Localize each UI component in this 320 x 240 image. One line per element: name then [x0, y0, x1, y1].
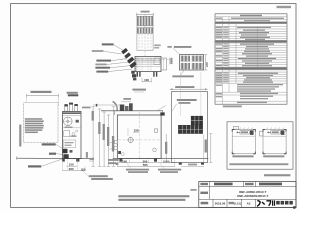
plan view elbow fitting blob 3 — [127, 57, 134, 64]
svg-text:270: 270 — [205, 62, 209, 67]
front view flexible hose curve — [113, 102, 118, 111]
plan view label bouchoumou — [102, 43, 114, 45]
plan view label haikito — [96, 60, 111, 62]
plan view label plate — [92, 50, 104, 52]
bath unit rotated dimension 254 — [205, 140, 207, 153]
install detail right square — [260, 130, 287, 154]
bath unit left foot — [179, 163, 182, 165]
plan view inner component rectangle — [154, 58, 160, 65]
side view parts list text block — [25, 118, 44, 133]
title block katashiki label — [200, 192, 208, 194]
plan view label leader lines left side — [104, 45, 133, 72]
side view floor line — [17, 157, 90, 159]
front view vertical centerline dashed — [138, 112, 140, 158]
svg-text:(1:15): (1:15) — [234, 202, 241, 206]
bath unit louver box B dark wide — [178, 125, 203, 134]
plan view horizontal centerline — [120, 58, 170, 60]
side view bottom dimension 130 — [67, 163, 78, 167]
title block hinmei label — [245, 183, 254, 185]
installation note paragraph line 1 — [118, 195, 189, 197]
bath unit operation cover label — [172, 99, 196, 111]
bath unit louver box A dark — [191, 116, 203, 125]
specification table cell text smudges — [216, 15, 284, 103]
chimney hatch band 2 — [137, 27, 153, 33]
title block sakusei label — [201, 202, 209, 205]
front view left side pipe stubs — [110, 140, 118, 150]
plan view grille slats left bottom — [181, 63, 189, 69]
front view bottom leader label gas left — [126, 164, 149, 174]
front view bottom leader label fixture right — [158, 164, 181, 174]
side view label A-setsuzokuguchi upper — [42, 143, 63, 149]
svg-text:565: 565 — [143, 163, 148, 167]
height dimension line 113.5 — [112, 107, 115, 167]
plan view left foot — [137, 72, 141, 77]
install detail left caption — [232, 155, 253, 157]
front view bottom dimension 565 — [117, 160, 175, 168]
plan view label tatekan fixing band — [95, 67, 110, 69]
plan view main body rectangle — [135, 57, 161, 72]
plan view elbow fitting blob 2 — [124, 52, 131, 58]
side view fan circle hub — [67, 120, 69, 122]
plan view vertical dashed projection lines — [139, 57, 151, 72]
side view bottom dashed extension lines — [63, 159, 86, 171]
chimney body outline — [137, 15, 153, 50]
side view roof label right — [82, 107, 91, 109]
svg-text:(100): (100) — [163, 159, 169, 163]
side view roof pipe stubs — [64, 103, 77, 112]
side note L-bracket line 1 — [82, 171, 113, 181]
plan view clearance note 1-1.5 — [132, 89, 146, 92]
plan view connector vertical dimension — [170, 58, 173, 65]
specification table horizontal rules — [215, 17, 287, 101]
units note (tan-i mm) top right — [277, 6, 292, 8]
side view feet — [62, 159, 79, 162]
plan view label setsuzokuguchi 50A — [96, 71, 108, 73]
plan view connector duct to grille — [161, 58, 167, 70]
plan view grille unit rectangle — [180, 55, 204, 71]
install detail left square — [232, 126, 255, 154]
plan view grille bottom label — [172, 70, 193, 77]
plan view 100 dimension under feet — [142, 78, 152, 83]
front view top-left burner assembly — [120, 98, 133, 111]
front view top-right dark valve component — [160, 112, 164, 115]
title block shounin label — [229, 202, 235, 204]
bath unit riser guide lines — [180, 72, 201, 116]
plan view left wall section hatch — [135, 58, 137, 72]
plan view to bath distance dimension 480+-50 — [170, 86, 208, 90]
front view top-right leader line — [158, 105, 166, 110]
plan view grille slats right top — [192, 56, 202, 62]
note below install box — [264, 174, 290, 176]
side view label A-setsuzokuguchi lower — [28, 159, 64, 168]
svg-text:100: 100 — [122, 159, 127, 163]
front view top extension line to height dims — [93, 104, 120, 107]
svg-text:RBF-A80SK-RR-R-T: RBF-A80SK-RR-R-T — [239, 190, 266, 194]
note fragment left of title block — [190, 189, 196, 191]
side view 45-110 dimension — [67, 92, 79, 97]
svg-text:2016.06: 2016.06 — [215, 202, 226, 206]
chimney bottom dimension with side note — [137, 45, 161, 51]
svg-text:A3: A3 — [247, 202, 251, 206]
side view rotated dimension 605 — [19, 125, 21, 147]
note below table — [223, 105, 242, 107]
side view top plate dark band — [63, 112, 81, 114]
side view mid components — [63, 120, 79, 148]
side view rotated note 4.5 — [86, 152, 88, 158]
front view small circle lower right — [153, 148, 157, 152]
side view upper inner panel lines — [63, 116, 81, 128]
plan view elbow fitting blob 1 — [121, 48, 128, 54]
title block outer and rules — [199, 182, 296, 208]
front view left foot — [119, 158, 122, 161]
plan view elbow fitting blob 4 — [129, 61, 137, 68]
svg-text:RBF-A80S2KN-RR-R-T: RBF-A80S2KN-RR-R-T — [237, 194, 268, 198]
install detail wall hatch left square — [235, 128, 253, 130]
chimney hatch band 1 — [137, 16, 153, 26]
specification table dark header band row 3 — [215, 22, 286, 24]
specification table dark band row gas type — [215, 67, 286, 69]
height dimension line 761 with extensions — [92, 107, 95, 167]
install detail wall hatch right square — [266, 128, 284, 130]
plan view grille slats left top — [181, 56, 189, 62]
side view fan circle — [64, 117, 73, 126]
title block meisho label — [200, 183, 208, 185]
front view pilot hole circle with crosshair — [127, 137, 134, 144]
chimney top dimension line — [137, 11, 153, 17]
chimney centerline — [144, 11, 146, 56]
side view dashed clearance box — [24, 103, 59, 143]
plan view grille top label — [167, 46, 191, 55]
chimney lower guide dashed lines — [139, 34, 151, 50]
drawing sheet border frame — [11, 4, 297, 208]
specification table dark band row mid — [215, 41, 286, 43]
title block gaikei sunpozu value — [214, 183, 233, 186]
front view horizontal centerline dashed — [118, 139, 161, 141]
front view floor line — [113, 157, 209, 159]
Rinnai logo katakana bold — [257, 200, 275, 206]
front view gas connection label left — [108, 159, 119, 164]
front view body rectangle — [117, 115, 161, 158]
side view fan circle cross — [64, 117, 73, 126]
bath unit wall panel rectangle — [171, 92, 207, 163]
bath unit right foot — [201, 163, 204, 165]
front view bottom dimension row 100 300 100 — [117, 159, 175, 167]
plan view duct lines inside body — [135, 58, 161, 66]
height dimension line 624+-15 — [103, 112, 106, 166]
plan view pipe stub below fittings — [131, 71, 136, 81]
height dimension line 134+-7.5 — [107, 115, 110, 166]
front view right side rotated dimension — [165, 134, 167, 163]
plan view right foot — [153, 72, 157, 77]
front view small box on right wall — [154, 129, 157, 132]
specification table vertical rules — [223, 17, 258, 104]
installation note paragraph line 2 — [118, 199, 185, 201]
side view bottom dimension 200 — [63, 167, 86, 171]
side view dashed box dash overlay — [24, 103, 59, 143]
svg-text:328: 328 — [134, 129, 139, 133]
specification table outer box — [215, 14, 287, 104]
bath unit bottom dimension — [181, 164, 204, 167]
title block kabushikigaisha text — [276, 201, 293, 205]
plan view grille vertical dimension 270 — [204, 55, 209, 71]
side view body rectangle — [63, 112, 82, 159]
corner page mark bottom-right — [293, 206, 296, 208]
bath unit inner panel line — [203, 135, 205, 163]
install detail note line in box — [229, 163, 288, 165]
svg-text:(29): (29) — [81, 168, 86, 171]
height dimension line 735 — [98, 109, 101, 166]
side view label A-kyuto — [49, 153, 63, 155]
title block gasu furogama value — [259, 183, 282, 186]
install detail right caption — [263, 155, 284, 157]
bath unit right dimension line — [209, 134, 212, 163]
front view bottom-left small fittings — [118, 151, 124, 155]
front view right foot — [154, 158, 157, 161]
side view floor line left end tick — [16, 157, 18, 160]
plan view label guide — [95, 64, 106, 66]
side view width dimension 480 W202 — [27, 91, 59, 106]
front view dimension tick lines inside — [128, 128, 139, 136]
dimension 75 bracket near floor — [89, 158, 94, 161]
side view lower pipe fittings dark — [63, 149, 73, 159]
install detail box border — [227, 122, 293, 169]
plan view grille slats right bottom — [192, 63, 202, 69]
front view top flange line — [101, 111, 163, 115]
